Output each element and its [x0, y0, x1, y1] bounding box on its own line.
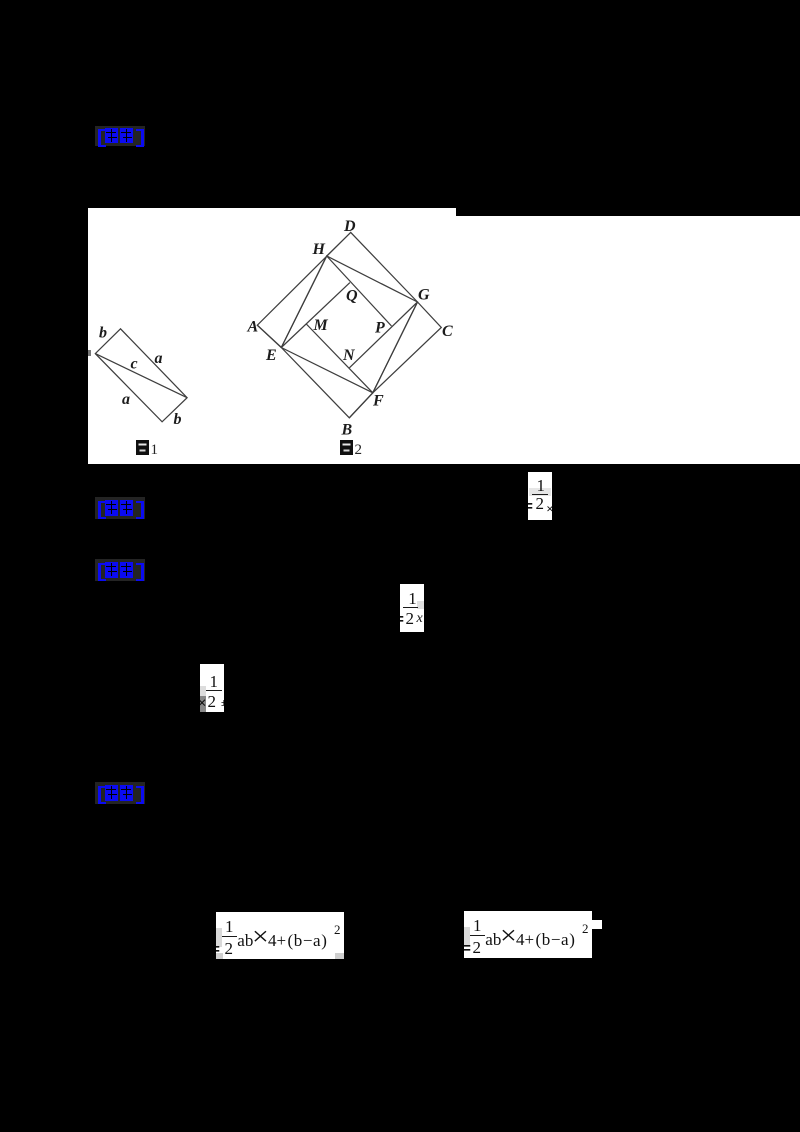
- formula image 2: [464, 911, 592, 958]
- fig2 outer square ABCD: [257, 232, 441, 417]
- header 3: [95, 559, 145, 581]
- svg-text:N: N: [342, 347, 356, 364]
- svg-text:P: P: [374, 320, 385, 337]
- edge artifact fig1: [88, 350, 91, 356]
- formula image 1: [216, 912, 344, 959]
- header 2: [95, 497, 145, 519]
- header 1: [95, 126, 145, 146]
- svg-text:1: 1: [151, 442, 159, 458]
- svg-text:F: F: [372, 393, 384, 410]
- figure image white block: [88, 208, 800, 464]
- svg-text:G: G: [418, 287, 430, 304]
- fig1 rectangle abab: [95, 329, 187, 422]
- cevian H-P: [327, 256, 392, 326]
- svg-text:b: b: [174, 411, 182, 428]
- black strip top-right of image: [456, 208, 800, 216]
- fig1 diagonal c: [95, 354, 187, 398]
- fig2 square EFGH: [281, 256, 417, 393]
- svg-text:b: b: [99, 325, 107, 342]
- svg-text:E: E: [265, 347, 277, 364]
- white fleck right of formula 2: [592, 920, 602, 929]
- inline fraction 3: [200, 664, 224, 712]
- svg-text:a: a: [122, 391, 130, 408]
- cevian F-M: [306, 324, 373, 393]
- svg-text:B: B: [341, 422, 353, 439]
- cevian G-N: [349, 302, 417, 368]
- captions: [136, 440, 362, 458]
- svg-text:2: 2: [355, 442, 363, 458]
- inline fraction 2: [400, 584, 424, 632]
- svg-text:M: M: [313, 317, 329, 334]
- svg-text:H: H: [312, 241, 326, 258]
- header 4: [95, 782, 145, 804]
- svg-text:a: a: [155, 350, 163, 367]
- cevian E-Q: [281, 283, 350, 348]
- inline fraction 1: [528, 472, 552, 520]
- svg-text:A: A: [247, 319, 259, 336]
- svg-text:D: D: [343, 218, 356, 235]
- svg-text:Q: Q: [346, 288, 358, 305]
- svg-text:c: c: [131, 356, 138, 373]
- svg-text:C: C: [442, 323, 453, 340]
